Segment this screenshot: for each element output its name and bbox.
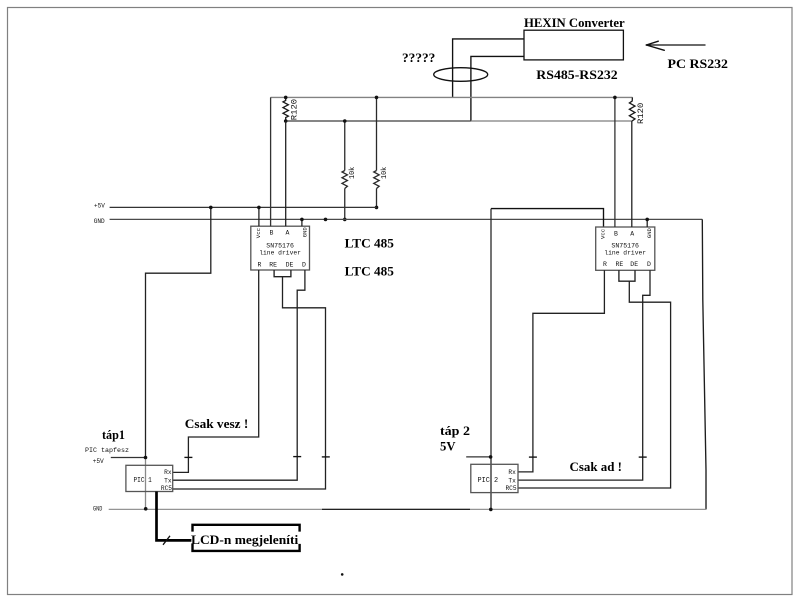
label +5V rail [94,203,105,210]
crossing tick on Tx riser [293,456,301,458]
tap2 local wire [466,456,490,458]
svg-text:RS485-RS232: RS485-RS232 [536,67,617,82]
wire converter pin1 to bus A [453,39,524,98]
junction +5V rail / 10k right [375,206,379,210]
wire U2 pin A from R120 right [631,121,633,227]
svg-text:R: R [258,262,262,269]
svg-text:GND: GND [301,227,308,238]
junction +5V rail / U1 Vcc [257,206,261,210]
svg-text:Csak ad !: Csak ad ! [570,459,623,474]
svg-text:R120: R120 [638,102,646,124]
microcontroller PIC1 box [126,465,173,491]
label U2 pin Vcc [600,229,607,239]
label U1 pin D [302,262,306,269]
label 10k right [381,167,389,179]
svg-text:Rx: Rx [164,469,172,476]
wire converter pin2 to bus B [471,56,524,121]
svg-text:Csak vesz !: Csak vesz ! [185,416,249,431]
svg-text:+5V: +5V [94,203,105,210]
junction GND bottom / tap2 drop [489,508,493,512]
GND bottom horizontal wire [109,508,707,510]
label U2 pin R [603,261,607,268]
svg-text:RE: RE [616,261,624,268]
label PIC tapfesz [85,447,129,455]
wire U1 R to PIC1 Rx [173,270,259,472]
label PIC2 pin RC5 [505,485,516,492]
svg-text:D: D [647,261,651,268]
wire U2 D to PIC2 Tx [518,270,650,480]
svg-text:+5V: +5V [93,458,104,465]
wire U1 pin A to bus B [285,121,287,226]
svg-text:PIC 1: PIC 1 [134,477,152,485]
ferrite bead ellipse [434,68,488,82]
svg-text:PIC tapfesz: PIC tapfesz [85,447,129,455]
junction GND rail / U2 GND pin [645,218,649,222]
wire U1 REDE to PIC1 RC5 [173,277,326,489]
label GND rail [94,218,105,225]
label U2 pin GND [646,227,653,238]
junction GND bottom / tap1 drop [144,507,148,511]
label U2 pin DE [630,261,638,268]
resistor R120 right termination [629,97,635,121]
svg-text:RE: RE [269,262,277,269]
stray junction dot on GND rail [324,218,328,222]
label U2 SN75176 [611,243,639,251]
thick LCD bus wire from PIC1 [157,492,192,541]
svg-text:B: B [614,231,618,238]
junction bus A / 10k right [375,96,379,100]
svg-text:Vcc: Vcc [600,229,607,239]
label PIC 1 [134,477,152,485]
svg-text:GND: GND [93,506,102,513]
svg-text:LTC 485: LTC 485 [345,263,395,278]
resistor 10k left bias [342,121,347,219]
label U1 SN75176 [266,242,294,250]
label PIC2 pin Rx [508,469,516,476]
junction tap2 local / tap2 drop [489,455,493,459]
wire U1 GND pin to GND rail [301,219,303,226]
junction bus A / R120 left [284,96,288,100]
op-amp U1 SN75176 box [251,226,310,270]
svg-text:GND: GND [94,218,105,225]
label R120 left [291,99,299,121]
svg-text:PC RS232: PC RS232 [668,56,729,71]
label U1 pin GND [301,227,308,238]
label U2 line driver [604,250,646,258]
label GND bottom [93,506,102,513]
wire U2 REDE to PIC2 RC5 [518,281,671,488]
wire U2 GND pin to GND rail [646,219,648,227]
label PIC 2 [478,477,499,485]
arrow from PC RS232 to converter [646,41,705,50]
label RS485-RS232 [536,67,617,82]
wire +5V rail to tap1 drop [146,207,211,457]
resistor 10k right bias [374,97,379,207]
+5V rail horizontal wire [110,206,377,208]
label tap1 [102,428,125,442]
svg-text:LCD-n megjeleníti: LCD-n megjeleníti [191,533,299,547]
svg-text:D: D [302,262,306,269]
bus slash mark [163,536,170,545]
svg-text:5V: 5V [440,440,456,454]
svg-text:A: A [285,230,289,237]
label PIC1 pin RC5 [161,485,172,492]
svg-text:PIC 2: PIC 2 [478,477,499,485]
microcontroller PIC2 box [471,464,518,492]
svg-text:Vcc: Vcc [255,228,262,238]
svg-text:HEXIN Converter: HEXIN Converter [524,15,625,30]
svg-text:10k: 10k [349,167,357,179]
label Csak ad ! [570,459,623,474]
LCD display box brackets [193,525,300,551]
svg-text:?????: ????? [402,50,435,65]
label U2 pin A [630,231,634,238]
svg-text:R: R [603,261,607,268]
wire U2 RE DE tie [619,270,635,281]
junction GND rail / 10k left [343,218,347,222]
svg-text:Tx: Tx [508,477,516,484]
svg-text:Rx: Rx [508,469,516,476]
label 10k left [349,167,357,179]
label R120 right [638,102,646,124]
GND rail right drop wire [702,219,706,509]
tap2 drop wire [490,209,492,510]
label LTC 485 second [345,263,395,278]
label U1 pin RE [269,262,277,269]
wire U1 RE DE tie [274,270,291,277]
svg-text:10k: 10k [381,167,389,179]
label U1 line driver [259,249,301,257]
svg-text:Tx: Tx [164,477,172,484]
label LCD-n megjeleniti [191,533,299,547]
+5V right segment to U2 Vcc [491,209,604,227]
svg-text:RC5: RC5 [161,485,172,492]
wire U2 R to PIC2 Rx [518,270,604,472]
label Csak vesz ! [185,416,249,431]
junction +5V rail / tap1 drop [209,206,213,210]
svg-text:line driver: line driver [259,249,301,257]
label LTC 485 first [345,236,395,251]
bus A top horizontal wire [271,96,633,98]
junction bus B / R120 left [284,119,288,123]
label U2 pin B [614,231,618,238]
svg-text:DE: DE [286,262,294,269]
crossing tick on PIC2 Rx riser [529,456,537,458]
label U2 pin D [647,261,651,268]
svg-text:GND: GND [646,227,653,238]
svg-text:B: B [270,230,274,237]
label U1 pin Vcc [255,228,262,238]
label U2 pin RE [616,261,624,268]
crossing tick on RC5 riser [322,456,330,458]
junction +5V local / tap1 drop [144,456,148,460]
wire U1 pin B to bus A [270,97,272,226]
svg-text:R120: R120 [291,99,299,121]
label 5V [440,440,456,454]
GND rail horizontal wire [110,218,703,220]
bus B second horizontal wire [286,120,632,122]
junction bus A / U2 pin B [613,96,617,100]
crossing tick on PIC2 Tx riser [639,456,647,458]
label U1 pin B [270,230,274,237]
label tap 2 [440,424,470,438]
label ????? [402,50,435,65]
label U1 pin R [258,262,262,269]
label U1 pin A [285,230,289,237]
label PIC2 pin Tx [508,477,516,484]
label +5V local [93,458,104,465]
svg-text:RC5: RC5 [505,485,516,492]
label PIC1 pin Tx [164,477,172,484]
junction GND rail / U1 GND pin [300,218,304,222]
wire tap1 drop gray lower part to GND bottom [145,458,147,509]
wire U1 Vcc to +5V rail [258,207,260,226]
resistor R120 left termination [283,97,288,121]
+5V local wire [111,457,146,459]
converter box U3 (HEXIN RS485-RS232) [524,30,623,60]
stray period dot [341,573,344,576]
label PIC1 pin Rx [164,469,172,476]
label PC RS232 [668,56,729,71]
junction bus B / 10k left [343,119,347,123]
svg-text:táp 2: táp 2 [440,424,470,438]
wire U2 pin B to bus A [614,97,616,227]
svg-text:táp1: táp1 [102,428,125,442]
svg-text:LTC 485: LTC 485 [345,236,395,251]
svg-text:line driver: line driver [604,250,646,258]
crossing tick on Rx riser [184,456,192,458]
label HEXIN Converter [524,15,625,30]
wire U1 D to PIC1 Tx [173,270,305,480]
svg-text:A: A [630,231,634,238]
svg-text:DE: DE [630,261,638,268]
label U1 pin DE [286,262,294,269]
op-amp U2 SN75176 box [596,227,655,270]
